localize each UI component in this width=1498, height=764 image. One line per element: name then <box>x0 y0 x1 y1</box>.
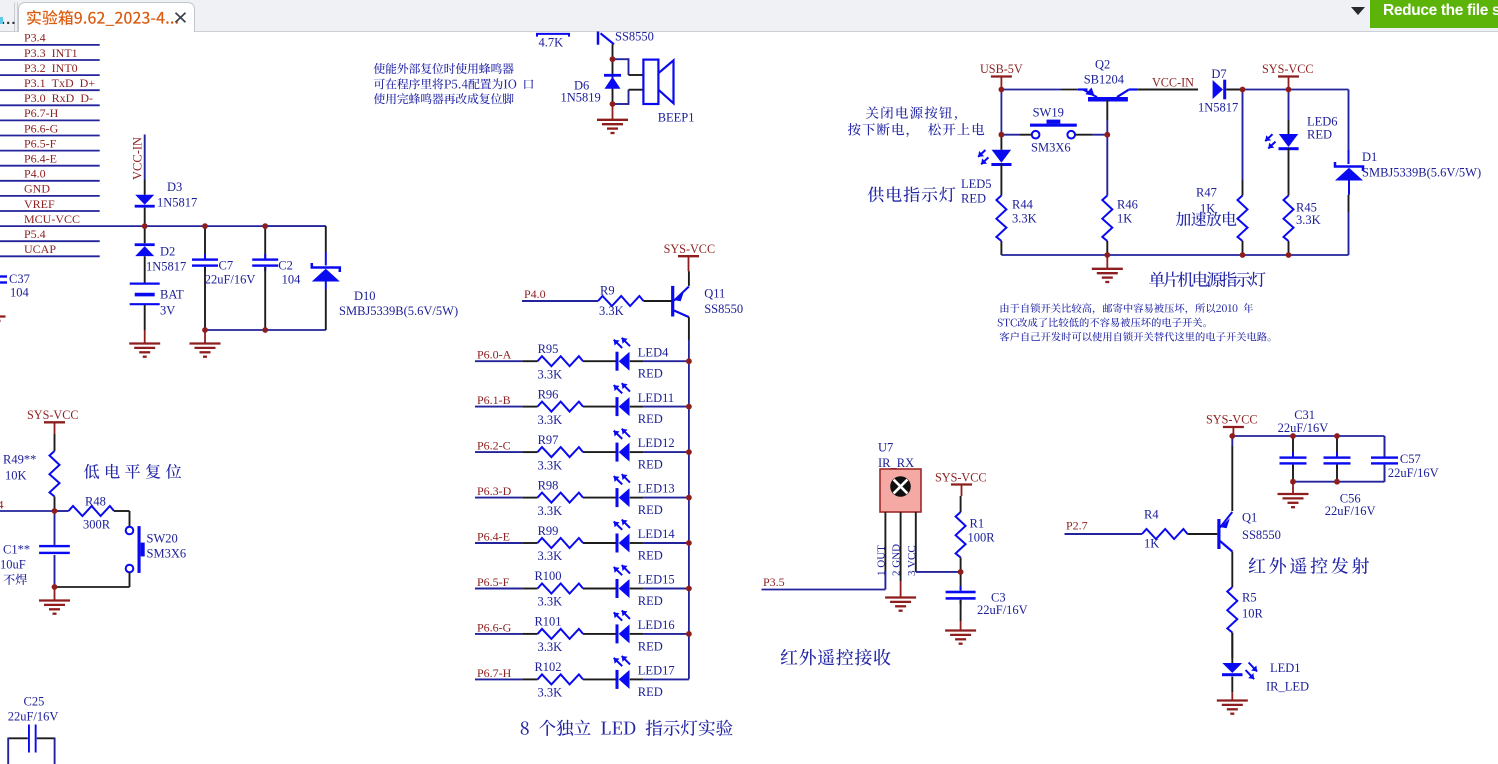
svg-text:3.3K: 3.3K <box>1012 212 1037 226</box>
wire <box>613 103 629 105</box>
wire <box>1000 90 1002 135</box>
junction <box>610 56 616 62</box>
svg-text:P3.5: P3.5 <box>763 575 785 589</box>
close button <box>176 13 186 22</box>
svg-text:P6.4-E: P6.4-E <box>24 152 57 166</box>
svg-text:D2: D2 <box>160 245 175 259</box>
svg-text:2 GND: 2 GND <box>891 544 903 576</box>
wire <box>0 165 100 167</box>
led LED13 <box>583 497 616 499</box>
resistor R100 <box>475 588 522 590</box>
note power indicator <box>868 186 956 202</box>
pin 2 GND <box>900 512 902 581</box>
svg-text:P3.3 INT1: P3.3 INT1 <box>24 46 78 60</box>
capacitor C7 <box>204 226 206 258</box>
svg-text:C57: C57 <box>1400 452 1421 466</box>
resistor R101 <box>475 633 522 635</box>
wire bottom rail <box>1001 254 1348 256</box>
wire <box>0 104 100 106</box>
svg-text:RED: RED <box>961 191 986 205</box>
wire <box>916 571 961 573</box>
pin <box>1138 89 1198 91</box>
svg-text:LED6: LED6 <box>1307 115 1338 129</box>
svg-text:RED: RED <box>638 503 663 517</box>
svg-text:SMBJ5339B(5.6V/5W): SMBJ5339B(5.6V/5W) <box>1362 166 1481 180</box>
svg-text:1K: 1K <box>1144 537 1159 551</box>
ground <box>900 581 902 598</box>
svg-text:3.3K: 3.3K <box>538 595 563 609</box>
resistor R4 <box>1142 529 1188 539</box>
svg-text:22uF/16V: 22uF/16V <box>1278 421 1329 435</box>
svg-text:D1: D1 <box>1362 150 1377 164</box>
svg-text:22uF/16V: 22uF/16V <box>977 603 1028 617</box>
svg-text:R101: R101 <box>534 615 561 629</box>
junction <box>1104 252 1110 258</box>
wire <box>0 255 100 257</box>
junction <box>686 449 692 455</box>
junction <box>1290 479 1296 485</box>
wire <box>0 150 100 152</box>
junction <box>1240 252 1246 258</box>
svg-text:100R: 100R <box>968 531 996 545</box>
svg-text:3.3K: 3.3K <box>538 504 563 518</box>
junction <box>52 508 58 514</box>
svg-text:LED12: LED12 <box>638 436 675 450</box>
svg-text:R5: R5 <box>1242 591 1257 605</box>
junction <box>1334 433 1340 439</box>
svg-text:P4.0: P4.0 <box>524 287 546 301</box>
svg-text:SYS-VCC: SYS-VCC <box>1206 413 1257 427</box>
svg-text:SYS-VCC: SYS-VCC <box>935 471 986 485</box>
svg-text:R49**: R49** <box>3 453 36 467</box>
junction <box>686 495 692 501</box>
capacitor C3 <box>960 572 962 590</box>
junction <box>1104 132 1110 138</box>
junction <box>1240 87 1246 93</box>
svg-text:Q11: Q11 <box>704 287 725 301</box>
svg-text:1N5819: 1N5819 <box>561 91 601 105</box>
junction <box>202 223 208 229</box>
svg-text:10K: 10K <box>5 469 27 483</box>
svg-text:1N5817: 1N5817 <box>1198 101 1238 115</box>
svg-text:LED14: LED14 <box>638 527 676 541</box>
wire <box>630 451 643 453</box>
wire <box>0 135 100 137</box>
svg-text:RED: RED <box>638 458 663 472</box>
svg-text:10R: 10R <box>1242 607 1264 621</box>
svg-text:R48: R48 <box>85 495 106 509</box>
wire <box>1243 89 1289 91</box>
junction <box>262 223 268 229</box>
svg-text:3.3K: 3.3K <box>538 413 563 427</box>
svg-text:BAT: BAT <box>160 287 184 301</box>
wire MCU-VCC rail <box>0 225 326 227</box>
diode D2 <box>144 226 146 243</box>
pin <box>612 44 614 59</box>
svg-text:3.3K: 3.3K <box>538 367 563 381</box>
svg-text:3V: 3V <box>160 304 175 318</box>
svg-text:300R: 300R <box>83 518 111 532</box>
junction <box>686 404 692 410</box>
svg-text:VCC-IN: VCC-IN <box>1152 76 1194 90</box>
svg-text:SYS-VCC: SYS-VCC <box>664 242 715 256</box>
note mcu power indicator <box>1149 272 1266 288</box>
wire <box>205 329 326 331</box>
led LED6 <box>1288 90 1290 121</box>
note buzzer usage line3 <box>374 93 514 104</box>
led LED15 <box>583 588 616 590</box>
note IR receive <box>781 649 891 666</box>
wire VCC-IN <box>144 135 146 180</box>
svg-text:C2: C2 <box>278 259 293 273</box>
wire <box>630 360 643 362</box>
junction <box>686 631 692 637</box>
svg-text:P6.6-G: P6.6-G <box>477 620 512 634</box>
wire <box>630 406 643 408</box>
transistor Q2 <box>1088 97 1128 102</box>
led LED11 <box>583 406 616 408</box>
previous tab edge <box>14 2 17 32</box>
svg-text:LED17: LED17 <box>638 664 675 678</box>
svg-text:P6.6-G: P6.6-G <box>24 121 59 135</box>
wire <box>630 588 643 590</box>
svg-text:3.3K: 3.3K <box>538 458 563 472</box>
led LED12 <box>583 451 616 453</box>
diode D3 <box>144 180 146 195</box>
power SYS-VCC <box>44 421 65 423</box>
svg-text:104: 104 <box>10 286 30 300</box>
switch SW19 <box>1001 134 1020 136</box>
note 8 LED caption <box>521 720 733 736</box>
resistor R96 <box>475 406 522 408</box>
wire <box>630 542 643 544</box>
svg-text:P6.7-H: P6.7-H <box>477 666 512 680</box>
svg-text:RED: RED <box>638 594 663 608</box>
tab title <box>27 10 178 26</box>
resistor R98 <box>475 497 522 499</box>
junction <box>1286 252 1292 258</box>
svg-text:R97: R97 <box>538 433 559 447</box>
switch SW20 <box>129 511 131 527</box>
capacitor C56 <box>1336 436 1338 456</box>
ground <box>204 330 206 344</box>
wire top rail <box>1001 89 1061 91</box>
svg-text:3.3K: 3.3K <box>599 304 624 318</box>
svg-text:P3.4: P3.4 <box>24 31 46 45</box>
diode D7 <box>1213 80 1223 99</box>
wire <box>265 225 326 227</box>
svg-text:P6.4-E: P6.4-E <box>477 529 510 543</box>
junction <box>686 540 692 546</box>
wire <box>1065 533 1143 535</box>
resistor R102 <box>475 678 522 680</box>
svg-text:R98: R98 <box>538 478 559 492</box>
svg-text:R4: R4 <box>1144 508 1159 522</box>
resistor R45 <box>1288 148 1290 196</box>
resistor R47 <box>1242 90 1244 181</box>
resistor R48 <box>55 510 69 512</box>
svg-text:RED: RED <box>638 639 663 653</box>
svg-text:U7: U7 <box>878 441 893 455</box>
svg-text:P6.1-B: P6.1-B <box>477 393 511 407</box>
svg-text:SYS-VCC: SYS-VCC <box>1262 62 1313 76</box>
green button <box>1370 0 1498 28</box>
svg-text:R95: R95 <box>538 342 559 356</box>
svg-text:SMBJ5339B(5.6V/5W): SMBJ5339B(5.6V/5W) <box>339 304 458 318</box>
resistor R44 <box>1000 164 1002 196</box>
wire bus <box>688 317 690 340</box>
svg-text:3.3K: 3.3K <box>538 686 563 700</box>
svg-text:R99: R99 <box>538 524 559 538</box>
svg-text:1N5817: 1N5817 <box>146 260 186 274</box>
note IR transmit <box>1249 557 1369 574</box>
svg-text:R96: R96 <box>538 387 559 401</box>
note fast discharge <box>1176 212 1237 227</box>
svg-text:R9: R9 <box>600 284 615 298</box>
svg-text:3.3K: 3.3K <box>538 549 563 563</box>
note power off button line1 <box>866 106 957 120</box>
ground <box>54 587 56 601</box>
svg-text:C25: C25 <box>24 695 45 709</box>
junction <box>262 327 268 333</box>
wire <box>630 497 643 499</box>
junction <box>686 586 692 592</box>
svg-text:LED15: LED15 <box>638 573 675 587</box>
wire <box>0 44 100 46</box>
junction <box>999 132 1005 138</box>
svg-text:1K: 1K <box>1200 202 1215 216</box>
wire <box>630 678 643 680</box>
wire <box>0 510 55 512</box>
buzzer BEEP1 <box>643 60 658 104</box>
resistor R95 <box>475 360 522 362</box>
svg-text:LED5: LED5 <box>961 177 992 191</box>
capacitor C2 <box>264 226 266 258</box>
junction <box>202 327 208 333</box>
svg-text:22uF/16V: 22uF/16V <box>8 710 59 724</box>
ground <box>1231 677 1233 693</box>
junction <box>52 584 58 590</box>
note switch history line1 <box>1001 303 1253 314</box>
ground <box>1292 482 1294 494</box>
wire <box>0 195 100 197</box>
svg-text:SS8550: SS8550 <box>704 302 743 316</box>
transistor Q11 <box>688 271 690 286</box>
wire <box>0 210 100 212</box>
svg-text:R100: R100 <box>534 569 561 583</box>
transistor SS8550 <box>597 32 600 45</box>
svg-text:P6.5-F: P6.5-F <box>24 136 57 150</box>
capacitor C31 <box>1292 436 1294 456</box>
note switch history line2 <box>998 318 1206 328</box>
svg-text:3.3K: 3.3K <box>1296 213 1321 227</box>
tab bar <box>0 0 1498 32</box>
svg-text:10uF: 10uF <box>0 558 26 572</box>
svg-text:RED: RED <box>638 548 663 562</box>
note switch history line3 <box>1000 332 1271 342</box>
svg-text:P6.2-C: P6.2-C <box>477 439 511 453</box>
resistor R5 <box>1227 587 1237 633</box>
dropdown arrow <box>1351 7 1365 15</box>
svg-text:RED: RED <box>638 367 663 381</box>
svg-text:C37: C37 <box>9 272 30 286</box>
wire <box>0 119 100 121</box>
svg-text:SB1204: SB1204 <box>1084 73 1125 87</box>
led LED14 <box>583 542 616 544</box>
wire <box>1232 435 1384 437</box>
svg-text:LED13: LED13 <box>638 482 675 496</box>
svg-text:P6.3-D: P6.3-D <box>477 484 512 498</box>
wire <box>1289 89 1349 91</box>
svg-text:SW19: SW19 <box>1033 106 1064 120</box>
svg-text:UCAP: UCAP <box>24 242 56 256</box>
junction <box>610 101 616 107</box>
svg-text:VCC-IN: VCC-IN <box>131 137 145 180</box>
transistor Q1 <box>1231 436 1233 446</box>
wire <box>762 589 886 591</box>
led LED4 <box>583 360 616 362</box>
resistor 4.7K <box>537 34 569 37</box>
svg-text:RED: RED <box>1307 128 1332 142</box>
svg-text:SM3X6: SM3X6 <box>147 547 187 561</box>
svg-text:P6.7-H: P6.7-H <box>24 106 59 120</box>
junction <box>1290 433 1296 439</box>
active tab <box>18 2 195 32</box>
svg-text:USB-5V: USB-5V <box>980 62 1023 76</box>
wire <box>57 586 130 588</box>
svg-text:P2.7: P2.7 <box>1066 519 1088 533</box>
wire <box>0 89 100 91</box>
svg-text:C1**: C1** <box>3 543 30 557</box>
svg-text:IR_RX: IR_RX <box>878 456 914 470</box>
led LED17 <box>583 678 616 680</box>
svg-text:LED1: LED1 <box>1270 661 1301 675</box>
svg-text:SW20: SW20 <box>147 532 178 546</box>
ground <box>144 330 146 344</box>
diode D6 <box>612 59 614 104</box>
resistor R97 <box>475 451 522 453</box>
svg-text:D3: D3 <box>167 180 182 194</box>
svg-text:R44: R44 <box>1012 198 1034 212</box>
wire <box>613 58 629 60</box>
power SYS-VCC <box>1223 426 1244 428</box>
ground <box>960 621 962 631</box>
svg-text:1K: 1K <box>1117 212 1132 226</box>
svg-text:LED16: LED16 <box>638 618 675 632</box>
note power off button line2 <box>848 123 984 137</box>
power SYS-VCC <box>678 255 699 257</box>
wire <box>630 633 643 635</box>
svg-text:VREF: VREF <box>24 197 55 211</box>
diode D10 <box>325 226 327 252</box>
svg-text:SYS-VCC: SYS-VCC <box>27 408 78 422</box>
svg-text:P5.4: P5.4 <box>0 498 3 512</box>
capacitor C1 <box>54 511 56 545</box>
svg-text:IR_LED: IR_LED <box>1266 680 1309 694</box>
svg-text:RED: RED <box>638 685 663 699</box>
svg-text:MCU-VCC: MCU-VCC <box>24 212 80 226</box>
junction <box>1286 87 1292 93</box>
svg-text:BEEP1: BEEP1 <box>658 111 695 125</box>
wire <box>0 240 100 242</box>
wire <box>1293 481 1385 483</box>
svg-text:SM3X6: SM3X6 <box>1031 141 1071 155</box>
junction <box>686 358 692 364</box>
wire <box>0 59 100 61</box>
svg-text:22uF/16V: 22uF/16V <box>1325 504 1376 518</box>
note buzzer usage line1 <box>374 63 514 74</box>
svg-text:104: 104 <box>282 273 302 287</box>
resistor R46 <box>1106 135 1108 196</box>
pin 1 OUT <box>884 512 886 571</box>
junction <box>1229 433 1235 439</box>
led LED1 <box>1231 633 1233 663</box>
svg-text:P3.1 TxD D+: P3.1 TxD D+ <box>24 76 95 90</box>
svg-text:P3.2 INT0: P3.2 INT0 <box>24 61 78 75</box>
svg-text:P6.5-F: P6.5-F <box>477 575 510 589</box>
svg-text:4.7K: 4.7K <box>539 36 564 50</box>
diode D1 <box>1348 90 1350 151</box>
note low-level reset <box>84 464 181 479</box>
pin 3 VCC <box>915 512 917 572</box>
resistor R99 <box>475 542 522 544</box>
wire <box>0 74 100 76</box>
note buzzer usage line2 <box>374 78 533 89</box>
svg-text:SS8550: SS8550 <box>615 30 654 44</box>
overflow dots <box>1 11 17 28</box>
svg-text:R47: R47 <box>1196 186 1217 200</box>
svg-text:C7: C7 <box>219 259 234 273</box>
svg-text:D10: D10 <box>354 289 376 303</box>
svg-text:3.3K: 3.3K <box>538 640 563 654</box>
junction <box>958 569 964 575</box>
svg-text:1N5817: 1N5817 <box>157 196 197 210</box>
svg-text:LED4: LED4 <box>638 345 669 359</box>
svg-text:R46: R46 <box>1117 198 1138 212</box>
svg-text:P6.0-A: P6.0-A <box>477 348 512 362</box>
ground <box>1106 255 1108 269</box>
ground <box>0 315 6 317</box>
svg-text:P4.0: P4.0 <box>24 167 46 181</box>
ground <box>612 104 614 120</box>
svg-text:Q1: Q1 <box>1242 511 1257 525</box>
junction <box>999 87 1005 93</box>
svg-text:GND: GND <box>24 182 50 196</box>
capacitor C37 <box>0 275 7 277</box>
wire <box>0 180 100 182</box>
svg-text:22uF/16V: 22uF/16V <box>205 273 256 287</box>
resistor R1 <box>960 496 962 512</box>
resistor R49 <box>54 434 56 451</box>
svg-text:22uF/16V: 22uF/16V <box>1388 466 1439 480</box>
led LED16 <box>583 633 616 635</box>
svg-text:D7: D7 <box>1211 67 1226 81</box>
svg-text:P5.4: P5.4 <box>24 227 46 241</box>
power SYS-VCC <box>1278 75 1299 77</box>
power SYS-VCC <box>951 483 972 485</box>
led LED5 <box>1000 135 1002 150</box>
svg-text:R1: R1 <box>970 517 985 531</box>
junction <box>142 223 148 229</box>
svg-text:RED: RED <box>638 412 663 426</box>
svg-text:LED11: LED11 <box>638 391 674 405</box>
note <box>3 574 27 585</box>
capacitor C57 <box>1384 436 1386 456</box>
svg-text:R102: R102 <box>534 660 561 674</box>
svg-text:P3.0 RxD D-: P3.0 RxD D- <box>24 91 93 105</box>
svg-text:Q2: Q2 <box>1095 58 1110 72</box>
junction <box>1334 479 1340 485</box>
